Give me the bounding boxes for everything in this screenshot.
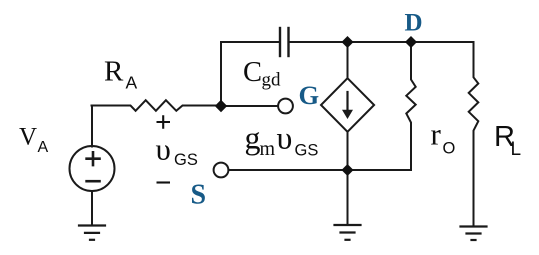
label gm vGS <box>245 120 319 161</box>
svg-text:S: S <box>191 179 207 210</box>
label vGS <box>156 132 198 170</box>
svg-text:A: A <box>38 139 49 156</box>
svg-text:g: g <box>245 120 261 156</box>
resistor rO <box>406 42 415 170</box>
svg-text:C: C <box>243 57 262 88</box>
svg-text:gd: gd <box>262 70 282 91</box>
label RA <box>104 55 138 92</box>
polarity minus of vGS <box>157 181 171 183</box>
ground (under RL) <box>461 227 487 241</box>
label VA <box>19 123 49 156</box>
terminal G (open circle) <box>278 99 293 114</box>
voltage source VA <box>70 146 115 191</box>
svg-text:L: L <box>511 139 522 160</box>
svg-text:m: m <box>260 138 276 160</box>
svg-text:G: G <box>299 80 320 110</box>
wire VA bottom lead <box>91 191 93 226</box>
dependent current source gm*vGS <box>321 78 374 132</box>
svg-text:GS: GS <box>295 141 319 159</box>
junction node at top of current source <box>342 37 353 48</box>
svg-text:O: O <box>443 139 456 157</box>
resistor RA <box>92 100 222 111</box>
junction node at source line <box>342 165 353 176</box>
wire current source bottom lead <box>347 132 349 170</box>
label Cgd <box>243 57 281 91</box>
ground (under VA) <box>79 226 105 240</box>
terminal S (open circle) <box>214 163 229 178</box>
label rO <box>431 117 456 158</box>
wire current source top lead <box>347 42 349 78</box>
wire top left (gate node to capacitor left plate) <box>221 42 279 106</box>
wire source node horizontal (S terminal to rO corner) <box>229 169 412 171</box>
svg-text:V: V <box>19 123 37 150</box>
wire gate horizontal (junction to G terminal) <box>221 105 278 107</box>
wire source junction to ground <box>347 170 349 225</box>
capacitor Cgd <box>280 28 289 56</box>
label RL <box>494 121 521 160</box>
polarity plus of vGS <box>157 115 171 128</box>
junction node D <box>406 37 417 48</box>
wire VA top lead <box>91 106 93 147</box>
svg-text:GS: GS <box>174 151 198 169</box>
svg-text:A: A <box>126 73 138 93</box>
svg-text:r: r <box>431 117 442 152</box>
wire top right (capacitor right plate to RL corner) <box>289 41 474 43</box>
svg-text:υ: υ <box>277 120 293 156</box>
svg-text:υ: υ <box>156 132 171 167</box>
svg-text:R: R <box>104 55 124 87</box>
resistor RL <box>469 42 479 227</box>
svg-text:D: D <box>405 10 423 37</box>
junction node at RA/gate <box>216 101 227 112</box>
ground (under current source) <box>335 225 361 240</box>
